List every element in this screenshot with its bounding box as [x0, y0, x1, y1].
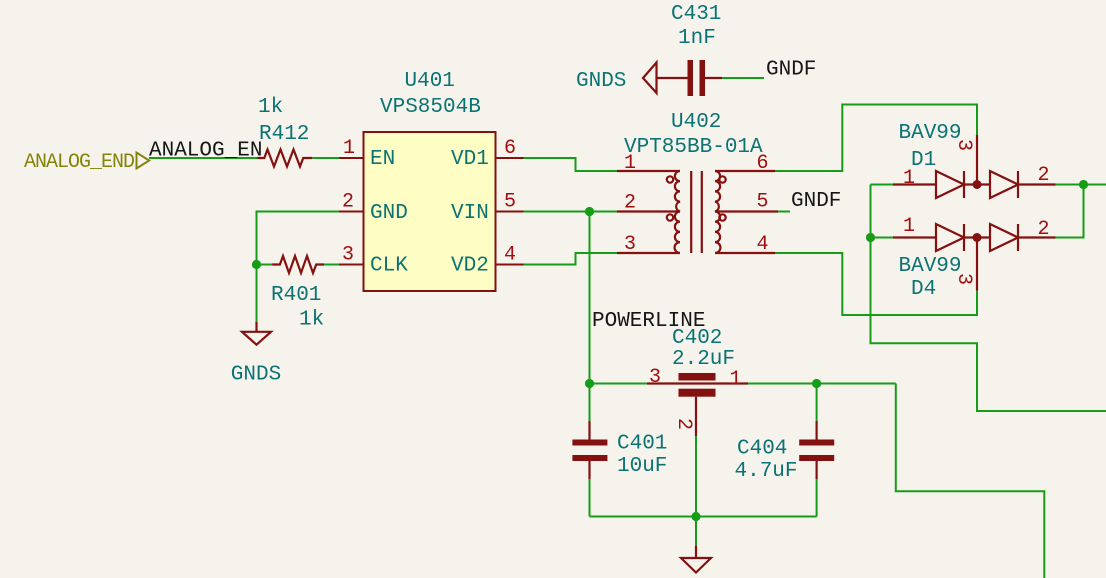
- U402 core lines: [690, 171, 692, 253]
- U402 polarity dot right top: [719, 176, 725, 182]
- wire bottom row: [590, 516, 817, 518]
- wire D1 pin2 to right edge: [1056, 184, 1106, 186]
- svg-text:GND: GND: [370, 202, 408, 225]
- ground GNDF (bottom center): [681, 546, 711, 573]
- U401 pin 3 line: [339, 264, 364, 266]
- wire D1 pin1 stub: [871, 184, 894, 186]
- capacitor C404: [815, 421, 817, 479]
- svg-text:6: 6: [504, 137, 516, 160]
- wire diode anode bus down and right to edge: [871, 185, 1106, 412]
- svg-text:VD2: VD2: [451, 255, 489, 278]
- svg-text:VPS8504B: VPS8504B: [380, 96, 481, 119]
- wire bottom junction to ground: [695, 517, 697, 547]
- junction D1 pin2: [1079, 180, 1088, 189]
- U402 pin 1 line: [617, 170, 680, 172]
- svg-text:1: 1: [343, 137, 355, 160]
- wire C401 bottom stub: [589, 479, 591, 517]
- svg-text:U402: U402: [671, 111, 721, 134]
- ground GNDS (bottom left): [242, 322, 271, 345]
- svg-text:3: 3: [624, 233, 636, 256]
- wire C404 bottom stub: [816, 479, 818, 517]
- wire transformer pin6 loop to D1 pin3: [775, 105, 977, 172]
- wire GND row: [257, 212, 340, 265]
- U402 pin 4 line: [715, 252, 775, 254]
- wire VD2 to transformer pin3: [524, 253, 618, 265]
- wire D1 pin2 down to D4 pin2: [1056, 185, 1084, 238]
- svg-text:1: 1: [730, 368, 742, 391]
- wire transformer pin4 loop to D4 pin3: [775, 253, 977, 315]
- svg-text:C431: C431: [671, 3, 721, 26]
- svg-text:1: 1: [903, 167, 915, 190]
- junction powerline right: [812, 379, 821, 388]
- svg-text:4: 4: [757, 233, 769, 256]
- U402 left winding: [675, 171, 680, 253]
- U401 pin 6 line: [496, 157, 524, 159]
- svg-text:2: 2: [672, 418, 695, 430]
- U402 pin 6 line: [715, 170, 775, 172]
- svg-text:2: 2: [342, 191, 354, 214]
- svg-text:2: 2: [1038, 218, 1050, 241]
- wire junction to GNDS ground: [256, 265, 258, 323]
- svg-text:VD1: VD1: [451, 148, 489, 171]
- resistor R412: [257, 150, 312, 167]
- U401 pin 1 line: [339, 157, 364, 159]
- svg-text:R401: R401: [271, 284, 321, 307]
- U402 polarity dot right bottom: [719, 214, 725, 220]
- svg-text:ANALOG_EN: ANALOG_EN: [149, 140, 262, 163]
- U402 pin 5 line: [715, 210, 778, 212]
- svg-text:VPT85BB-01A: VPT85BB-01A: [624, 136, 763, 159]
- wire C404 top stub: [816, 384, 818, 422]
- wire VD1 to transformer pin1: [524, 158, 618, 171]
- wire junction to R401: [257, 264, 273, 266]
- U402 right winding: [715, 171, 720, 253]
- hierarchical label ANALOG_END shape: [137, 153, 150, 169]
- resistor R401: [272, 256, 324, 273]
- capacitor C431: [657, 77, 722, 79]
- diode pair D1: [893, 135, 1056, 198]
- svg-text:2: 2: [1038, 164, 1050, 187]
- capacitor C401: [588, 421, 590, 479]
- svg-text:4: 4: [504, 244, 516, 267]
- svg-text:1k: 1k: [299, 309, 324, 332]
- wire D4 pin1 stub: [871, 237, 894, 239]
- wire powerline right down to bottom edge: [896, 384, 1045, 578]
- junction powerline left: [585, 379, 594, 388]
- svg-text:1nF: 1nF: [678, 27, 716, 50]
- junction D4 pin1: [866, 233, 875, 242]
- U401 pin 2 line: [339, 211, 364, 213]
- D4 common node dot: [973, 233, 982, 242]
- svg-text:U401: U401: [405, 70, 455, 93]
- svg-text:1: 1: [624, 152, 636, 175]
- wire C431 to GNDF label: [722, 77, 764, 79]
- svg-text:C404: C404: [737, 438, 787, 461]
- svg-text:4.7uF: 4.7uF: [735, 460, 798, 483]
- svg-text:EN: EN: [370, 148, 395, 171]
- svg-text:5: 5: [504, 191, 516, 214]
- wire C401 top stub: [589, 384, 591, 422]
- svg-text:CLK: CLK: [370, 255, 408, 278]
- IC U401 body: [364, 132, 496, 291]
- wire R401 to U401 pin3: [324, 264, 340, 266]
- U402 polarity dot left top: [667, 176, 673, 182]
- svg-text:2: 2: [624, 192, 636, 215]
- transformer U402: [617, 171, 778, 253]
- U401 pin 5 line: [496, 211, 524, 213]
- svg-text:GNDF: GNDF: [791, 190, 841, 213]
- wire EN row from label to R412: [149, 157, 258, 159]
- wire R412 to U401 pin1: [313, 157, 340, 159]
- D1 common node dot: [973, 180, 982, 189]
- svg-text:GNDF: GNDF: [766, 59, 816, 82]
- svg-text:3: 3: [952, 273, 975, 285]
- svg-text:D4: D4: [911, 278, 936, 301]
- svg-text:10uF: 10uF: [617, 455, 667, 478]
- svg-text:VIN: VIN: [451, 202, 489, 225]
- svg-text:GNDS: GNDS: [576, 70, 626, 93]
- svg-text:6: 6: [757, 152, 769, 175]
- svg-text:3: 3: [952, 139, 975, 151]
- svg-text:GNDS: GNDS: [231, 364, 281, 387]
- U401 pin 4 line: [496, 264, 524, 266]
- svg-text:3: 3: [342, 244, 354, 267]
- capacitor C402 (3-terminal): [647, 384, 748, 437]
- wire transformer pin5 stub to GNDF label: [775, 211, 790, 213]
- svg-text:1: 1: [903, 215, 915, 238]
- svg-text:ANALOG_END: ANALOG_END: [24, 151, 134, 174]
- diode pair D4: [893, 224, 1056, 291]
- wire C402 pin2 down: [695, 436, 697, 517]
- junction CLK node: [252, 260, 261, 269]
- svg-text:R412: R412: [259, 123, 309, 146]
- svg-text:3: 3: [649, 366, 661, 389]
- svg-text:5: 5: [757, 191, 769, 214]
- wire VIN junction down to powerline junction: [589, 212, 591, 384]
- svg-text:C402: C402: [672, 327, 722, 350]
- power symbol GNDS arrow (top): [643, 63, 657, 94]
- junction VIN node: [585, 207, 594, 216]
- svg-text:1k: 1k: [258, 96, 283, 119]
- U402 pin 2 line: [617, 210, 680, 212]
- U402 pin 3 line: [617, 252, 680, 254]
- svg-text:2.2uF: 2.2uF: [672, 348, 735, 371]
- svg-text:C401: C401: [617, 433, 667, 456]
- wire VIN row to transformer pin2: [524, 211, 618, 213]
- U402 polarity dot left bottom: [667, 214, 673, 220]
- junction bottom center: [691, 512, 700, 521]
- wire POWERLINE row: [590, 383, 896, 385]
